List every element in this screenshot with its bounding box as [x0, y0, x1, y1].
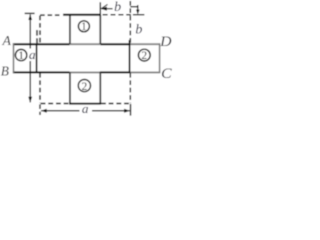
- wire: dashed square right edge below band: [129, 73, 131, 103]
- dimension: bottom a right head: [124, 109, 130, 113]
- wire: dashed square bottom edge right segment: [101, 103, 130, 105]
- wire: right extension down to a-dimension: [130, 104, 132, 116]
- wire: bottom block right edge: [99, 72, 101, 103]
- dimension: left arrow top tick: [25, 12, 35, 14]
- dimension: small top-right vertical: [137, 5, 139, 14]
- wire: dashed square right edge above band: [129, 1, 131, 44]
- dimension: left vertical arrow line lower part: [29, 61, 31, 102]
- dimension: left arrow up head: [28, 14, 32, 20]
- wire: top block right edge: [99, 15, 101, 44]
- wire: band left edge (gray): [13, 43, 15, 73]
- wire: dashed square top edge right segment: [103, 14, 131, 16]
- wire: bottom block left edge: [69, 72, 71, 103]
- dimension: small top-right down head: [136, 10, 140, 15]
- wire: extension line above top block right edge: [99, 2, 101, 15]
- wire: band bottom edge gray right square part: [130, 71, 160, 73]
- svg-text:a: a: [29, 47, 36, 62]
- wire: right square divider: [129, 40, 131, 73]
- svg-text:B: B: [1, 65, 10, 80]
- wire: band top edge black left part: [13, 43, 70, 45]
- dimension: top b arrow shaft: [102, 8, 113, 10]
- svg-text:2: 2: [141, 50, 147, 62]
- dimension: left vertical arrow line upper part: [29, 14, 31, 48]
- wire: dashed left extension down to a-dimension: [39, 104, 41, 115]
- dimension: top b arrow left head: [101, 7, 107, 11]
- svg-text:C: C: [161, 66, 172, 82]
- wire: band right edge (gray): [159, 43, 161, 73]
- wire: dashed square top edge left segment: [40, 14, 61, 16]
- wire: band bottom edge gray across bottom block opening: [70, 71, 100, 73]
- dimension: small top-right upper tick: [130, 6, 138, 8]
- dimension: left arrow down head: [28, 97, 32, 103]
- dimension: bottom a line right segment: [92, 110, 130, 112]
- wire: band bottom edge black mid-right part: [100, 71, 130, 73]
- dimension: bottom a line left segment: [41, 110, 79, 112]
- wire: dashed square bottom edge left segment: [41, 103, 69, 105]
- wire: bottom block bottom edge solid: [69, 103, 101, 105]
- wire: band top edge black mid-right part: [101, 43, 130, 45]
- dimension: top b arrow barb up: [101, 4, 107, 8]
- svg-text:a: a: [82, 101, 89, 116]
- svg-text:b: b: [135, 22, 142, 37]
- piece marker circled 1 in left square: [15, 49, 26, 60]
- dimension: bottom a left head: [41, 109, 47, 113]
- svg-text:2: 2: [82, 81, 88, 93]
- svg-text:A: A: [2, 33, 12, 48]
- wire: short dashed extension above band over left divider: [36, 30, 38, 43]
- wire: band top edge gray across top block opening: [70, 43, 101, 45]
- wire: top block top edge solid: [63, 14, 101, 16]
- piece marker circled 2 in bottom block: [78, 80, 90, 92]
- svg-text:1: 1: [18, 50, 24, 62]
- svg-text:b: b: [114, 0, 121, 15]
- wire: left square divider: [36, 43, 38, 73]
- svg-text:D: D: [159, 34, 172, 50]
- wire: dashed square left edge below band: [39, 73, 41, 103]
- piece marker circled 2 in right square: [138, 49, 150, 61]
- svg-text:1: 1: [81, 21, 87, 33]
- dimension: small top-right lower tick: [133, 14, 144, 16]
- piece marker circled 1 in top block: [78, 21, 89, 32]
- wire: dashed square left edge above band: [39, 16, 41, 44]
- wire: band top edge gray right square part: [130, 43, 160, 45]
- wire: band bottom edge black left part: [13, 71, 70, 73]
- wire: top block left edge: [69, 15, 71, 44]
